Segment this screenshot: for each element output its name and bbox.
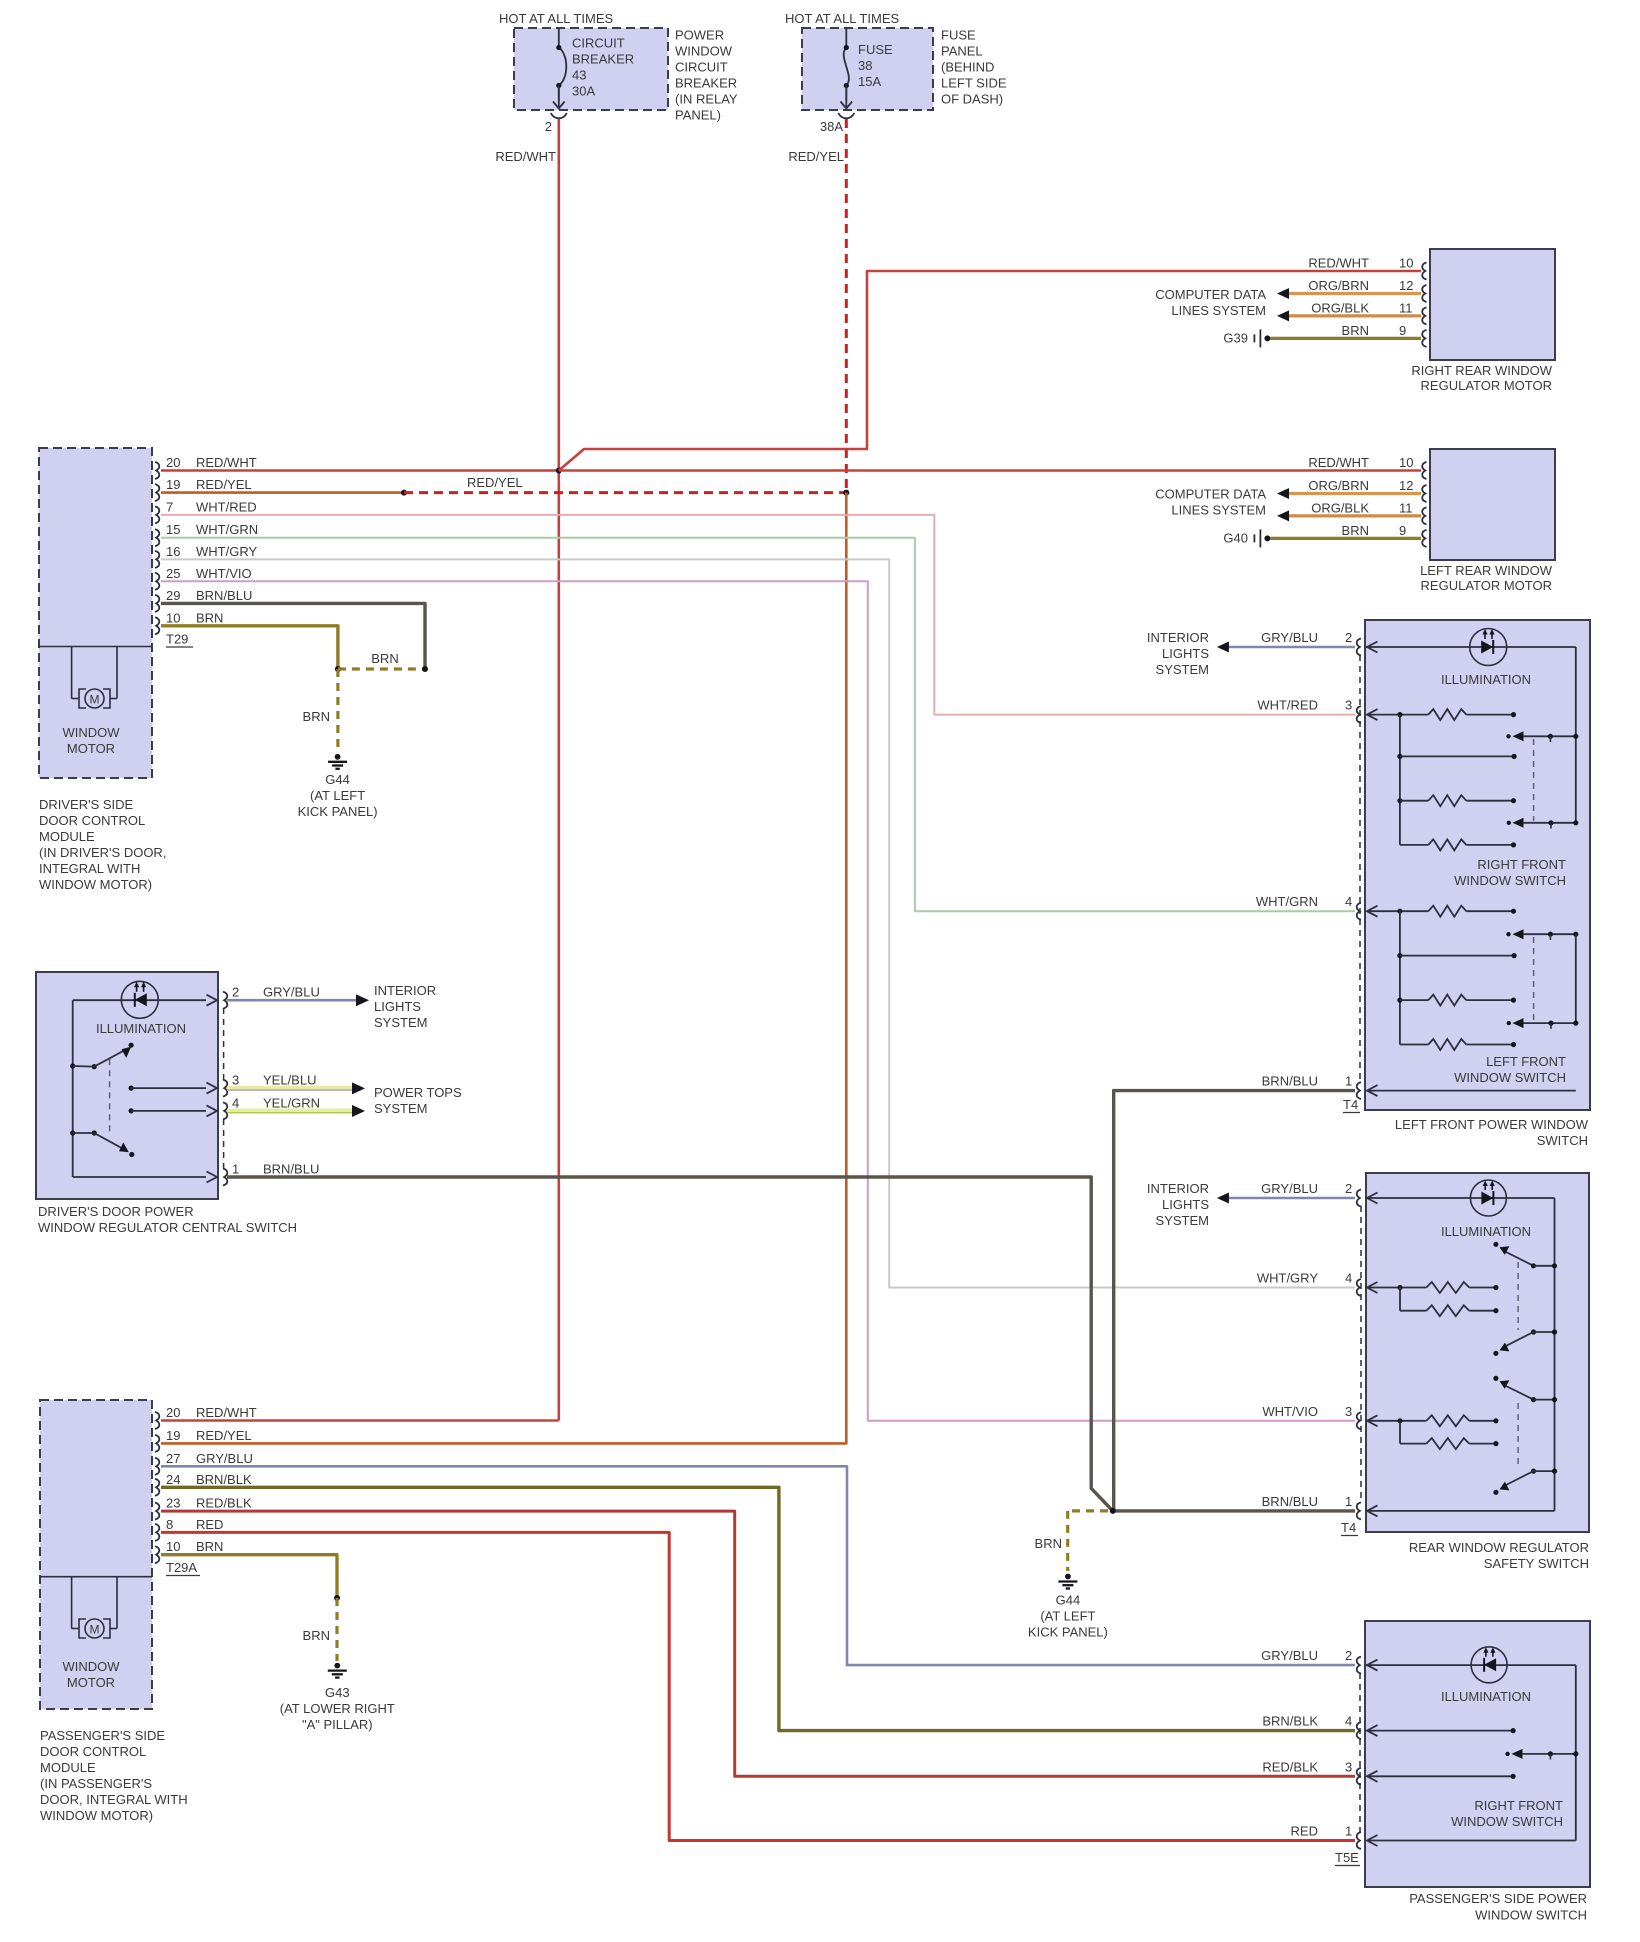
svg-text:BRN: BRN — [303, 709, 330, 724]
node: RED/YEL fuse junction — [843, 490, 849, 496]
svg-text:T4: T4 — [1341, 1520, 1356, 1535]
svg-text:15A: 15A — [858, 74, 881, 89]
pin 11 ORG/BLK (left rear motor) — [1422, 507, 1426, 524]
dashed pin link — [1360, 1206, 1362, 1503]
svg-text:3: 3 — [1345, 698, 1352, 713]
dashed wiper link 1 — [1517, 1262, 1519, 1330]
wire ORG/BRN (left rear) — [1289, 492, 1421, 495]
svg-text:19: 19 — [166, 477, 180, 492]
ground G44 (centre) — [1065, 1574, 1071, 1580]
pin 3 RED/BLK (passenger switch) — [1357, 1768, 1361, 1785]
svg-text:GRY/BLU: GRY/BLU — [196, 1451, 253, 1466]
node: RED/WHT junction — [556, 468, 562, 474]
central switch pin connectors — [223, 992, 227, 1009]
svg-text:WINDOW: WINDOW — [675, 44, 733, 59]
svg-text:DOOR CONTROL: DOOR CONTROL — [39, 813, 145, 828]
svg-text:4: 4 — [1345, 894, 1352, 909]
module/motor divider — [39, 646, 152, 648]
svg-text:RED/YEL: RED/YEL — [196, 477, 252, 492]
svg-text:WHT/VIO: WHT/VIO — [196, 566, 252, 581]
svg-text:BRN/BLU: BRN/BLU — [1262, 1074, 1318, 1089]
svg-text:20: 20 — [166, 455, 180, 470]
svg-text:2: 2 — [1345, 1181, 1352, 1196]
svg-text:G43: G43 — [325, 1685, 350, 1700]
svg-text:PANEL): PANEL) — [675, 108, 721, 123]
svg-text:WINDOW SWITCH: WINDOW SWITCH — [1451, 1814, 1563, 1829]
svg-text:MODULE: MODULE — [40, 1760, 96, 1775]
svg-text:MOTOR: MOTOR — [67, 1675, 115, 1690]
svg-text:BRN/BLU: BRN/BLU — [1262, 1494, 1318, 1509]
pin 19 RED/YEL (driver module) — [155, 484, 159, 501]
pin 29 BRN/BLU (driver module) — [155, 595, 159, 612]
pin 4 WHT/GRN internal (left front window switch) — [1367, 906, 1378, 917]
svg-text:(AT LEFT: (AT LEFT — [310, 788, 365, 803]
pin 10 BRN (passenger module) — [155, 1546, 159, 1563]
svg-text:GRY/BLU: GRY/BLU — [1261, 1181, 1318, 1196]
wire RED/YEL driver pin19 solid — [161, 491, 404, 494]
pin 4 internal — [1367, 1725, 1378, 1736]
svg-text:KICK PANEL): KICK PANEL) — [1028, 1625, 1108, 1640]
wire RED/YEL down to passenger pin19 — [161, 493, 846, 1444]
svg-text:19: 19 — [166, 1428, 180, 1443]
svg-text:RED/WHT: RED/WHT — [1308, 455, 1369, 470]
svg-text:7: 7 — [166, 499, 173, 514]
svg-text:ORG/BLK: ORG/BLK — [1311, 500, 1369, 515]
svg-text:(AT LOWER RIGHT: (AT LOWER RIGHT — [280, 1701, 395, 1716]
pin 1 internal — [1367, 1505, 1378, 1516]
svg-text:RED/BLK: RED/BLK — [196, 1496, 252, 1511]
svg-text:SYSTEM: SYSTEM — [1156, 662, 1209, 677]
svg-text:10: 10 — [1399, 455, 1413, 470]
pin 2 GRY/BLU (left front switch) — [1357, 639, 1361, 656]
svg-text:10: 10 — [166, 1539, 180, 1554]
svg-text:BRN: BRN — [1342, 323, 1369, 338]
right bus — [1575, 1665, 1577, 1840]
dashed pin link — [1359, 655, 1361, 1083]
ground G44 (at left kick panel) — [335, 754, 341, 760]
svg-text:16: 16 — [166, 544, 180, 559]
svg-text:INTERIOR: INTERIOR — [1147, 630, 1209, 645]
svg-text:T5E: T5E — [1335, 1850, 1359, 1865]
svg-text:29: 29 — [166, 588, 180, 603]
connector pin 38A of fuse — [838, 113, 854, 118]
svg-text:G39: G39 — [1223, 331, 1248, 346]
wire BRN (right rear) — [1270, 337, 1421, 340]
inner left bus — [72, 1000, 74, 1177]
svg-text:REGULATOR MOTOR: REGULATOR MOTOR — [1421, 578, 1552, 593]
pin 4 BRN/BLK (passenger switch) — [1357, 1722, 1361, 1739]
svg-text:ORG/BRN: ORG/BRN — [1308, 278, 1369, 293]
svg-text:1: 1 — [1345, 1824, 1352, 1839]
pin 10 RED/WHT (left rear motor) — [1422, 462, 1426, 479]
svg-text:1: 1 — [1345, 1494, 1352, 1509]
resistor row bottom (upper half) — [1400, 844, 1428, 846]
pin 7 WHT/RED (driver module) — [155, 506, 159, 523]
wire RED/WHT vertical from breaker — [557, 119, 560, 1421]
wire GRY/BLU to interior lights (safety) — [1222, 1197, 1355, 1200]
wire BRN driver pin10 — [161, 626, 338, 669]
resistor row lower — [1397, 998, 1402, 1003]
switch wiper lower (central) — [70, 1130, 75, 1135]
switch wiper upper (central) — [70, 1063, 75, 1068]
svg-text:OF DASH): OF DASH) — [941, 92, 1003, 107]
pin 2 GRY/BLU (passenger switch) — [1357, 1657, 1361, 1674]
svg-text:WINDOW: WINDOW — [62, 1659, 120, 1674]
svg-text:BRN: BRN — [196, 1539, 223, 1554]
svg-text:ILLUMINATION: ILLUMINATION — [1441, 1224, 1531, 1239]
wire BRN (left rear) — [1270, 537, 1421, 540]
svg-text:WHT/VIO: WHT/VIO — [1262, 1404, 1318, 1419]
svg-text:11: 11 — [1399, 500, 1413, 515]
pin 10 RED/WHT (right rear motor) — [1422, 263, 1426, 280]
svg-text:RED/YEL: RED/YEL — [788, 149, 844, 164]
svg-text:BRN/BLU: BRN/BLU — [263, 1162, 319, 1177]
svg-text:G40: G40 — [1223, 530, 1248, 545]
svg-text:WINDOW SWITCH: WINDOW SWITCH — [1454, 873, 1566, 888]
svg-text:YEL/BLU: YEL/BLU — [263, 1073, 316, 1088]
svg-text:YEL/GRN: YEL/GRN — [263, 1095, 320, 1110]
pin 12 ORG/BRN (left rear motor) — [1422, 485, 1426, 502]
ground G43 — [334, 1663, 340, 1669]
svg-text:WHT/RED: WHT/RED — [196, 499, 257, 514]
svg-text:INTERIOR: INTERIOR — [374, 983, 436, 998]
node: BRN dot — [334, 1595, 340, 1601]
pin 1 BRN/BLU (safety switch) — [1357, 1502, 1361, 1519]
wire WHT/GRN net — [161, 538, 1355, 912]
pin 23 RED/BLK (passenger module) — [155, 1503, 159, 1520]
wire RED/WHT branch to right rear motor — [559, 271, 1421, 471]
circuit breaker CB43 symbol — [558, 28, 560, 48]
pin 10 BRN (driver module) — [155, 617, 159, 634]
dashed wiper link lower — [1533, 937, 1535, 1021]
svg-text:ILLUMINATION: ILLUMINATION — [96, 1021, 186, 1036]
connector pin 2 of CB43 — [551, 113, 567, 118]
pin 3 WHT/VIO (safety switch) — [1357, 1412, 1361, 1429]
pin 12 ORG/BRN (right rear motor) — [1422, 285, 1426, 302]
svg-text:ILLUMINATION: ILLUMINATION — [1441, 672, 1531, 687]
svg-text:1: 1 — [1345, 1074, 1352, 1089]
svg-text:FUSE: FUSE — [941, 28, 976, 43]
circuit breaker box (relay panel) — [514, 28, 668, 110]
svg-text:LINES SYSTEM: LINES SYSTEM — [1171, 503, 1266, 518]
wire WHT/RED net — [161, 515, 1355, 715]
svg-text:GRY/BLU: GRY/BLU — [1261, 1648, 1318, 1663]
dashed wiper link upper — [1533, 739, 1535, 821]
svg-text:4: 4 — [1345, 1714, 1352, 1729]
svg-text:RIGHT FRONT: RIGHT FRONT — [1474, 1798, 1563, 1813]
pin 3 resistors — [1367, 1415, 1378, 1426]
svg-text:WHT/RED: WHT/RED — [1257, 698, 1318, 713]
svg-text:COMPUTER DATA: COMPUTER DATA — [1155, 287, 1266, 302]
wire RED net — [161, 1532, 1355, 1840]
wire RED/WHT passenger pin20 row — [161, 1419, 559, 1422]
svg-text:RED/YEL: RED/YEL — [196, 1428, 252, 1443]
svg-text:RED/WHT: RED/WHT — [1308, 256, 1369, 271]
svg-text:WINDOW: WINDOW — [62, 725, 120, 740]
pin 20 RED/WHT (driver module) — [155, 462, 159, 479]
svg-text:HOT AT ALL TIMES: HOT AT ALL TIMES — [785, 11, 899, 26]
wire BRN to G43 — [161, 1555, 337, 1598]
svg-text:MOTOR: MOTOR — [67, 741, 115, 756]
svg-text:WHT/GRN: WHT/GRN — [1256, 894, 1318, 909]
svg-text:ORG/BLK: ORG/BLK — [1311, 300, 1369, 315]
svg-text:BRN: BRN — [196, 610, 223, 625]
svg-text:4: 4 — [1345, 1271, 1352, 1286]
pin 19 RED/YEL (passenger module) — [155, 1435, 159, 1452]
svg-text:INTEGRAL WITH: INTEGRAL WITH — [39, 861, 140, 876]
wiper row upper B — [1507, 821, 1511, 825]
wire BRN dashed link — [338, 667, 425, 670]
LED illumination (central switch) — [73, 999, 206, 1001]
window motor symbol (driver) — [71, 647, 73, 699]
pin 4 resistors — [1367, 1282, 1378, 1293]
svg-text:LIGHTS: LIGHTS — [374, 999, 421, 1014]
pin 4 WHT/GRY (safety switch) — [1357, 1279, 1361, 1296]
svg-text:T29A: T29A — [166, 1560, 197, 1575]
svg-text:RED/BLK: RED/BLK — [1262, 1759, 1318, 1774]
svg-text:27: 27 — [166, 1451, 180, 1466]
svg-text:T4: T4 — [1343, 1097, 1358, 1112]
svg-text:POWER: POWER — [675, 28, 724, 43]
svg-text:LEFT FRONT: LEFT FRONT — [1486, 1054, 1566, 1069]
wire BRN dashed drop to G44 — [336, 669, 339, 752]
node: RED/YEL solid-dash junction — [401, 490, 407, 496]
svg-text:LEFT REAR WINDOW: LEFT REAR WINDOW — [1420, 563, 1553, 578]
contact to pin 3 — [129, 1086, 134, 1091]
svg-text:BRN: BRN — [1342, 523, 1369, 538]
svg-text:SYSTEM: SYSTEM — [374, 1015, 427, 1030]
svg-text:ILLUMINATION: ILLUMINATION — [1441, 1689, 1531, 1704]
svg-text:2: 2 — [232, 985, 239, 1000]
svg-text:COMPUTER DATA: COMPUTER DATA — [1155, 487, 1266, 502]
wiper 2 — [1531, 1329, 1536, 1334]
svg-text:M: M — [90, 1623, 100, 1637]
pin 15 WHT/GRN (driver module) — [155, 529, 159, 546]
svg-text:LEFT FRONT POWER WINDOW: LEFT FRONT POWER WINDOW — [1395, 1117, 1589, 1132]
pin 25 WHT/VIO (driver module) — [155, 573, 159, 590]
svg-text:RED: RED — [1291, 1824, 1318, 1839]
svg-text:INTERIOR: INTERIOR — [1147, 1181, 1209, 1196]
svg-text:PASSENGER'S SIDE: PASSENGER'S SIDE — [40, 1728, 165, 1743]
wire RED/YEL dashed vertical from fuse — [845, 119, 848, 493]
wire RED/WHT to left rear motor — [559, 469, 1421, 472]
svg-text:RED/WHT: RED/WHT — [495, 149, 556, 164]
dashed pin link (central switch) — [223, 1008, 225, 1080]
node: BRN junction at G44 drop — [335, 666, 341, 672]
svg-text:REGULATOR MOTOR: REGULATOR MOTOR — [1421, 378, 1552, 393]
right bus upper — [1575, 647, 1577, 823]
window motor symbol (passenger) — [71, 1577, 73, 1629]
pin 16 WHT/GRY (driver module) — [155, 551, 159, 568]
svg-text:BREAKER: BREAKER — [675, 76, 737, 91]
LED illumination (safety switch) — [1367, 1197, 1555, 1199]
wire BRN/BLU left front switch pin1 — [1114, 1091, 1355, 1511]
resistor row — [1397, 798, 1402, 803]
fuse 38 symbol — [845, 28, 847, 48]
svg-text:DRIVER'S SIDE: DRIVER'S SIDE — [39, 797, 134, 812]
svg-text:RED/WHT: RED/WHT — [196, 455, 257, 470]
pin 2 GRY/BLU (safety switch) — [1357, 1190, 1361, 1207]
wiper 4 — [1531, 1469, 1536, 1474]
svg-text:RIGHT REAR WINDOW: RIGHT REAR WINDOW — [1411, 363, 1552, 378]
bottom resistor row — [1400, 1044, 1428, 1046]
svg-text:25: 25 — [166, 566, 180, 581]
svg-text:DOOR CONTROL: DOOR CONTROL — [40, 1744, 146, 1759]
wire ORG/BLK (right rear) — [1289, 314, 1421, 317]
svg-text:BREAKER: BREAKER — [572, 52, 634, 67]
svg-text:10: 10 — [1399, 256, 1413, 271]
svg-text:(IN RELAY: (IN RELAY — [675, 92, 738, 107]
pin 11 ORG/BLK (right rear motor) — [1422, 307, 1426, 324]
svg-text:BRN: BRN — [1035, 1536, 1062, 1551]
wire BRN/BLK net — [161, 1487, 1355, 1730]
fuse panel box — [802, 28, 933, 110]
svg-text:RIGHT FRONT: RIGHT FRONT — [1477, 857, 1566, 872]
svg-text:WHT/GRY: WHT/GRY — [196, 544, 257, 559]
wiper 1 — [1493, 1242, 1498, 1247]
svg-text:WINDOW REGULATOR CENTRAL SWITC: WINDOW REGULATOR CENTRAL SWITCH — [38, 1220, 297, 1235]
wire ORG/BLK (left rear) — [1289, 514, 1421, 517]
wiper row lower B — [1507, 1021, 1511, 1025]
wire GRY/BLU passenger net — [161, 1466, 1355, 1665]
pin 4 WHT/GRN (left front switch) — [1357, 903, 1361, 920]
pin 20 RED/WHT (passenger module) — [155, 1412, 159, 1429]
svg-text:SAFETY SWITCH: SAFETY SWITCH — [1484, 1556, 1589, 1571]
svg-text:DRIVER'S DOOR POWER: DRIVER'S DOOR POWER — [38, 1204, 194, 1219]
svg-text:POWER TOPS: POWER TOPS — [374, 1085, 462, 1100]
wiper row lower A — [1506, 932, 1510, 936]
contact row lower — [1397, 953, 1402, 958]
pin 24 BRN/BLK (passenger module) — [155, 1479, 159, 1496]
pin 1 internal — [1367, 1835, 1378, 1846]
node: BRN/BLU end dot — [422, 666, 428, 672]
wire ORG/BRN (right rear) — [1289, 292, 1421, 295]
LED illumination (left front switch) — [1366, 646, 1576, 648]
svg-text:BRN/BLK: BRN/BLK — [1262, 1714, 1318, 1729]
svg-text:9: 9 — [1399, 323, 1406, 338]
svg-text:8: 8 — [166, 1517, 173, 1532]
svg-text:LINES SYSTEM: LINES SYSTEM — [1171, 303, 1266, 318]
svg-text:4: 4 — [232, 1095, 239, 1110]
pin 8 RED (passenger module) — [155, 1524, 159, 1541]
svg-text:BRN: BRN — [371, 651, 398, 666]
svg-text:2: 2 — [545, 119, 552, 134]
svg-text:PANEL: PANEL — [941, 44, 983, 59]
svg-text:23: 23 — [166, 1496, 180, 1511]
svg-text:RED/YEL: RED/YEL — [467, 475, 523, 490]
svg-text:G44: G44 — [325, 772, 350, 787]
svg-text:KICK PANEL): KICK PANEL) — [298, 804, 378, 819]
svg-text:LEFT SIDE: LEFT SIDE — [941, 76, 1007, 91]
svg-text:LIGHTS: LIGHTS — [1162, 1197, 1209, 1212]
wire RED/YEL dashed horizontal — [404, 491, 846, 494]
wire WHT/VIO net — [161, 581, 1355, 1421]
svg-text:PASSENGER'S SIDE POWER: PASSENGER'S SIDE POWER — [1409, 1891, 1587, 1906]
svg-text:1: 1 — [232, 1162, 239, 1177]
svg-text:WINDOW MOTOR): WINDOW MOTOR) — [40, 1808, 153, 1823]
svg-text:ORG/BRN: ORG/BRN — [1308, 478, 1369, 493]
svg-text:HOT AT ALL TIMES: HOT AT ALL TIMES — [499, 11, 613, 26]
svg-text:REAR WINDOW REGULATOR: REAR WINDOW REGULATOR — [1409, 1540, 1589, 1555]
pin 3 WHT/RED internal — [1367, 709, 1378, 720]
wire BRN/BLU central pin1 long run — [227, 1177, 1113, 1511]
svg-text:10: 10 — [166, 610, 180, 625]
svg-text:BRN: BRN — [303, 1628, 330, 1643]
svg-text:GRY/BLU: GRY/BLU — [263, 985, 320, 1000]
wiper row upper A — [1506, 734, 1510, 738]
contact row — [1397, 754, 1402, 759]
svg-text:WHT/GRN: WHT/GRN — [196, 522, 258, 537]
svg-text:CIRCUIT: CIRCUIT — [675, 60, 728, 75]
dashed link (central) — [109, 1059, 111, 1134]
wire WHT/GRY net — [161, 559, 1355, 1287]
svg-text:(AT LEFT: (AT LEFT — [1040, 1609, 1095, 1624]
svg-text:15: 15 — [166, 522, 180, 537]
svg-text:RED/WHT: RED/WHT — [196, 1405, 257, 1420]
wiper row (passenger switch) — [1505, 1752, 1509, 1756]
node: BRN/BLU junction at ground tap — [1110, 1508, 1116, 1514]
svg-text:WHT/GRY: WHT/GRY — [1257, 1271, 1318, 1286]
svg-text:3: 3 — [1345, 1404, 1352, 1419]
svg-text:(BEHIND: (BEHIND — [941, 60, 994, 75]
contact to pin 4 — [129, 1108, 134, 1113]
left bus upper — [1399, 715, 1401, 845]
svg-text:24: 24 — [166, 1472, 180, 1487]
pin 9 BRN (left rear motor) — [1422, 530, 1426, 547]
svg-text:12: 12 — [1399, 278, 1413, 293]
svg-text:WINDOW SWITCH: WINDOW SWITCH — [1475, 1908, 1587, 1923]
svg-text:38A: 38A — [820, 119, 843, 134]
module/motor divider (passenger) — [40, 1576, 152, 1578]
svg-text:2: 2 — [1345, 1648, 1352, 1663]
svg-text:CIRCUIT: CIRCUIT — [572, 36, 625, 51]
svg-text:9: 9 — [1399, 523, 1406, 538]
wire GRY/BLU to interior lights (left front) — [1222, 646, 1355, 649]
svg-text:SYSTEM: SYSTEM — [1156, 1213, 1209, 1228]
svg-text:(IN PASSENGER'S: (IN PASSENGER'S — [40, 1776, 152, 1791]
svg-text:FUSE: FUSE — [858, 42, 893, 57]
svg-text:DOOR, INTEGRAL WITH: DOOR, INTEGRAL WITH — [40, 1792, 188, 1807]
svg-text:38: 38 — [858, 58, 872, 73]
right bus — [1554, 1198, 1556, 1511]
pin 27 GRY/BLU (passenger module) — [155, 1458, 159, 1475]
svg-text:30A: 30A — [572, 84, 595, 99]
svg-text:RED: RED — [196, 1517, 223, 1532]
svg-text:MODULE: MODULE — [39, 829, 95, 844]
svg-text:(IN DRIVER'S DOOR,: (IN DRIVER'S DOOR, — [39, 845, 166, 860]
svg-text:"A" PILLAR): "A" PILLAR) — [302, 1717, 373, 1732]
wire RED/WHT driver pin20 row — [161, 469, 559, 472]
pin 9 BRN (right rear motor) — [1422, 330, 1426, 347]
svg-text:43: 43 — [572, 68, 586, 83]
svg-text:BRN/BLU: BRN/BLU — [196, 588, 252, 603]
LED illumination (passenger switch) — [1366, 1664, 1576, 1666]
svg-text:11: 11 — [1399, 300, 1413, 315]
pin 1 BRN/BLU (left front switch) — [1357, 1082, 1361, 1099]
svg-text:3: 3 — [232, 1073, 239, 1088]
pin 3 internal — [1367, 1771, 1378, 1782]
wire BRN dashed to G44 (centre) — [1068, 1509, 1108, 1512]
svg-text:GRY/BLU: GRY/BLU — [1261, 630, 1318, 645]
right bus lower — [1575, 934, 1577, 1023]
pin 1 RED (passenger switch) — [1357, 1832, 1361, 1849]
pin 3 WHT/RED (left front switch) — [1357, 706, 1361, 723]
svg-text:WINDOW SWITCH: WINDOW SWITCH — [1454, 1070, 1566, 1085]
dashed pin link — [1359, 1673, 1361, 1833]
wire RED/BLK net — [161, 1511, 1355, 1776]
svg-text:BRN/BLK: BRN/BLK — [196, 1472, 252, 1487]
svg-text:T29: T29 — [166, 632, 188, 647]
